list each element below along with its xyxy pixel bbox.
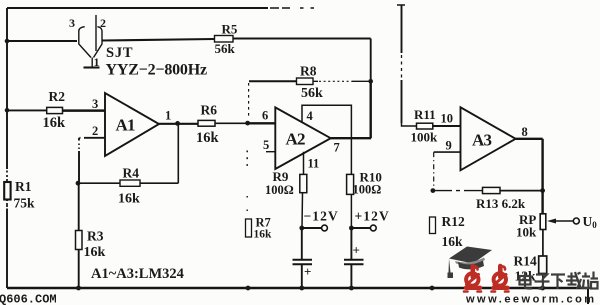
node B junction R5/R8/A2out	[368, 79, 373, 84]
resistor R13	[483, 187, 501, 193]
resistor R1	[4, 182, 10, 200]
wire top vertical to R11	[402, 123, 417, 126]
svg-text:4: 4	[307, 109, 314, 123]
svg-text:A3: A3	[472, 131, 491, 150]
wire A3 output	[516, 139, 543, 214]
resistor R9	[300, 174, 307, 192]
resistor R11	[417, 123, 433, 129]
node D junction A1 output	[175, 121, 180, 126]
svg-text:+: +	[304, 264, 311, 279]
wire R2 to A1 pin3	[63, 109, 106, 112]
node R12 bus junction	[430, 286, 435, 291]
wire A2 pin11	[303, 152, 305, 175]
terminal +12V circle	[370, 225, 376, 231]
resistor R5	[215, 36, 234, 43]
svg-text:16k: 16k	[84, 245, 106, 260]
svg-text:R5: R5	[222, 22, 238, 37]
svg-text:16k: 16k	[254, 229, 273, 241]
svg-text:+12V: +12V	[355, 209, 390, 224]
potentiometer RP	[540, 214, 546, 230]
svg-text:100Ω: 100Ω	[353, 183, 382, 197]
wire top-right vertical	[397, 5, 405, 123]
char zai	[566, 272, 581, 289]
wire dashed R8 to node A	[248, 83, 250, 119]
svg-text:R4: R4	[123, 166, 140, 181]
resistor R7	[246, 219, 252, 237]
terminal -12V circle	[322, 225, 328, 231]
svg-text:R9: R9	[273, 169, 289, 184]
svg-text:SJT: SJT	[106, 45, 133, 61]
wire node A to A2 pin6	[248, 122, 275, 124]
capacitor C2	[344, 228, 364, 288]
wiper arrow of RP	[547, 219, 573, 224]
svg-text:A2: A2	[286, 130, 305, 149]
wire R6 to node A	[215, 122, 248, 124]
transducer SJT	[79, 15, 102, 67]
wire A3 pin9	[434, 151, 461, 153]
wire R11 to A3 pin10	[433, 125, 461, 127]
node C1 bus junction	[299, 286, 304, 291]
node R13 right junction	[540, 188, 545, 193]
svg-text:R2: R2	[49, 89, 66, 104]
watermark graduation cap	[448, 247, 493, 279]
wire A2 pin5 stub	[266, 151, 275, 153]
node C2 bus junction	[349, 286, 354, 291]
svg-text:16k: 16k	[118, 192, 140, 207]
char xia	[551, 275, 565, 290]
svg-text:YYZ−2−800Hz: YYZ−2−800Hz	[106, 62, 207, 79]
svg-text:9: 9	[446, 139, 452, 153]
wire bottom-right drop	[587, 288, 589, 304]
ground (pin 1 of SJT)	[84, 66, 100, 68]
resistor R10	[347, 174, 354, 194]
wire RP to R14	[542, 230, 544, 257]
wire R4 to A1 output	[140, 124, 178, 183]
node R13 left junction	[431, 188, 436, 193]
wire R10 to +12V node	[350, 194, 352, 228]
watermark site name chars	[520, 272, 599, 290]
wire node C to R4	[78, 182, 120, 184]
svg-text:+: +	[353, 243, 360, 258]
svg-text:16k: 16k	[43, 115, 67, 131]
resistor R8	[297, 78, 314, 85]
wire pin9 down dash-dot	[433, 152, 435, 188]
svg-text:56k: 56k	[301, 86, 323, 101]
svg-text:3: 3	[69, 16, 75, 30]
svg-text:1: 1	[165, 109, 171, 123]
resistor R2	[47, 107, 63, 113]
node R3 bus junction	[76, 286, 81, 291]
svg-text:16k: 16k	[442, 234, 464, 249]
wire R8 right (faded dashes)	[313, 80, 371, 82]
char dian	[520, 272, 533, 289]
wire R5 to node B	[233, 39, 371, 82]
svg-text:2: 2	[92, 124, 98, 138]
wire +12V terminal	[351, 227, 370, 229]
op-amp A2	[275, 107, 330, 169]
wire R8 left	[249, 80, 297, 82]
node R7 bus junction	[246, 286, 251, 291]
op-amp A1	[105, 93, 159, 156]
svg-text:5: 5	[263, 138, 269, 152]
wire -12V terminal	[302, 227, 322, 229]
svg-text:8: 8	[522, 125, 528, 139]
node A junction R6/R8/pin6	[245, 121, 250, 126]
wire A1 pin2 feedback	[79, 138, 105, 183]
char zhan	[582, 272, 599, 289]
wire left rail	[6, 8, 8, 288]
svg-text:A1: A1	[116, 116, 135, 135]
node +12V junction	[349, 226, 354, 231]
wire faded pin5 to R7	[246, 151, 248, 168]
wire R13 left	[433, 190, 483, 192]
svg-text:6: 6	[262, 109, 268, 123]
svg-text:R3: R3	[87, 229, 104, 244]
svg-text:2: 2	[100, 16, 106, 30]
svg-text:16k: 16k	[196, 130, 220, 146]
svg-text:A1~A3:LM324: A1~A3:LM324	[91, 266, 184, 282]
svg-text:75k: 75k	[14, 196, 36, 211]
node SJT left junction	[5, 39, 10, 44]
svg-text:R12: R12	[442, 214, 465, 229]
node C junction R3/R4/pin2	[76, 181, 81, 186]
svg-text:10k: 10k	[516, 225, 537, 240]
wire R13 right	[500, 190, 543, 192]
char zi	[535, 275, 550, 289]
op-amp A3	[461, 107, 516, 170]
wire node C down to R3	[78, 183, 80, 230]
resistor R14	[539, 256, 547, 274]
svg-text:100Ω: 100Ω	[265, 183, 294, 197]
svg-text:7: 7	[334, 141, 340, 155]
resistor R6	[198, 120, 215, 126]
wire A1 out to R6	[159, 123, 198, 125]
svg-text:R8: R8	[300, 64, 317, 79]
svg-text:100k: 100k	[411, 130, 439, 145]
svg-text:R7: R7	[256, 216, 271, 230]
wire A2 output to node B	[331, 81, 372, 138]
watermark bug 2	[492, 266, 509, 292]
svg-text:−12V: −12V	[304, 209, 339, 224]
resistor R3	[76, 231, 83, 250]
svg-text:10: 10	[441, 112, 454, 126]
svg-text:56k: 56k	[215, 41, 236, 56]
wire SJT to R5	[102, 39, 214, 41]
wire A2 pin4 loop	[302, 105, 351, 174]
wire top bus	[7, 7, 314, 9]
svg-text:R14: R14	[514, 254, 537, 269]
wire rail to SJT	[7, 40, 77, 42]
svg-text:R11: R11	[414, 107, 436, 122]
capacitor C1	[293, 228, 313, 288]
wire R3 to bus	[78, 250, 80, 289]
node R2 rail junction	[5, 108, 10, 113]
node -12V junction	[299, 226, 304, 231]
svg-text:R6: R6	[201, 103, 218, 118]
node R14 bus junction	[540, 286, 545, 291]
svg-text:R13 6.2k: R13 6.2k	[476, 196, 526, 211]
wire R9 to -12V node	[301, 193, 304, 228]
wire R14 to bus	[542, 274, 544, 289]
resistor R12	[430, 217, 436, 234]
resistor R4	[120, 180, 140, 186]
svg-text:www.eeworm.com: www.eeworm.com	[465, 294, 597, 305]
svg-text:1: 1	[94, 55, 100, 69]
svg-text:Q606.COM: Q606.COM	[0, 293, 57, 305]
wire rail to R2	[7, 109, 47, 111]
svg-text:R1: R1	[15, 179, 32, 194]
wire bottom ground bus	[7, 287, 588, 289]
watermark bug 1	[464, 266, 481, 292]
svg-text:11: 11	[308, 157, 320, 171]
svg-text:3: 3	[92, 97, 98, 111]
terminal U0 circle	[573, 218, 579, 224]
